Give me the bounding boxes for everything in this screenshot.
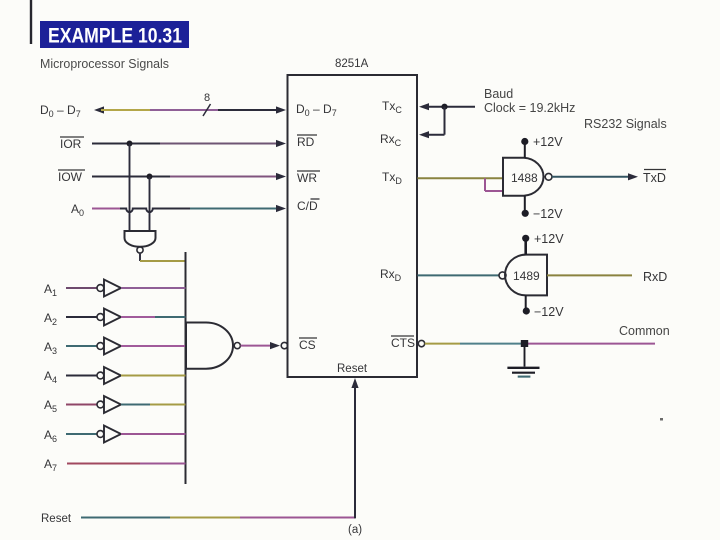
pin label RxD (U1 inside)	[380, 267, 402, 283]
wire A4 inverter to bus	[121, 375, 186, 377]
node baud clock junction	[441, 104, 447, 110]
inverter buffer A2	[66, 309, 121, 326]
ground symbol	[507, 344, 539, 377]
inverter buffer A1	[66, 280, 121, 297]
signal label A7	[44, 457, 57, 473]
signal label A3	[44, 340, 57, 356]
signal label A5	[44, 398, 57, 414]
wire A1 inverter to bus	[121, 287, 186, 289]
label Common	[619, 324, 670, 338]
bus width slash with label 8	[203, 92, 211, 116]
label RS232 Signals	[584, 117, 667, 131]
inverter buffer A5	[66, 396, 121, 413]
pin label TxC (U1 inside)	[382, 99, 402, 115]
address bus vertical line	[185, 252, 187, 484]
svg-text:IOR: IOR	[60, 137, 82, 151]
wire A6 inverter to bus	[121, 433, 186, 435]
svg-text:−12V: −12V	[534, 305, 564, 319]
svg-text:Reset: Reset	[337, 363, 368, 375]
pin label WR (U1 inside)	[297, 171, 320, 185]
svg-text:8: 8	[204, 92, 210, 104]
label Microprocessor Signals	[40, 56, 169, 71]
signal label A2	[44, 311, 57, 327]
wire RxD pin to 1489	[418, 274, 500, 276]
+12V supply of U3	[522, 232, 564, 255]
svg-text:(a): (a)	[348, 524, 362, 536]
NAND gate G2 (chip select decoder)	[186, 323, 240, 369]
pin label CTS (U1 inside)	[391, 336, 415, 350]
svg-text:RD: RD	[297, 135, 315, 149]
wire Reset to chip	[81, 378, 359, 518]
left border line	[30, 0, 32, 44]
inverter buffer A3	[66, 338, 121, 355]
svg-text:Microprocessor Signals: Microprocessor Signals	[40, 56, 169, 71]
svg-text:D0 – D7: D0 – D7	[40, 103, 81, 119]
node IOR junction	[127, 141, 133, 147]
svg-text:IOW: IOW	[58, 170, 83, 184]
svg-text:TxD: TxD	[643, 171, 666, 185]
slide title EXAMPLE 10.31	[40, 21, 189, 48]
signal label A4	[44, 369, 57, 385]
wire D0-D7 bus	[94, 106, 286, 113]
wire A2 inverter to bus	[121, 316, 186, 318]
pin label Reset (U1 inside)	[337, 363, 368, 375]
wire A0 to C/D with hops	[92, 205, 286, 212]
inverter buffer A4	[66, 367, 121, 384]
signal label IOR (left)	[60, 137, 84, 151]
pin label C/D (U1 inside)	[297, 199, 320, 213]
node IOW junction	[147, 174, 153, 180]
svg-text:D0 – D7: D0 – D7	[296, 102, 337, 118]
svg-text:Baud: Baud	[484, 87, 513, 101]
CS input bubble at chip edge	[281, 342, 287, 348]
signal label A0 (left)	[71, 202, 84, 218]
pin label RD (U1 inside)	[297, 135, 317, 149]
svg-text:8251A: 8251A	[335, 58, 369, 70]
wire IOR to RD	[92, 140, 286, 147]
signal label A6	[44, 428, 57, 444]
signal label A1	[44, 282, 57, 298]
IC U1 8251A body	[288, 75, 418, 377]
wire TxD pin to 1488 inputs	[418, 178, 504, 191]
decoder AND gate G1 (points down)	[125, 231, 156, 253]
wire decoder output to address bus	[140, 254, 186, 261]
line driver U2 1488	[503, 158, 552, 196]
pin label CS (U1 inside)	[299, 338, 317, 352]
wire baud clock to TxC	[419, 103, 475, 110]
scan speck	[660, 418, 663, 421]
CTS bubble at chip edge	[418, 340, 424, 346]
svg-text:CS: CS	[299, 338, 316, 352]
label (a)	[348, 524, 362, 536]
svg-text:RxD: RxD	[643, 270, 667, 284]
node ground junction	[521, 340, 528, 347]
+12V supply of U2	[521, 135, 563, 158]
wire 1488 output to TxD	[552, 173, 638, 180]
svg-text:+12V: +12V	[534, 232, 564, 246]
svg-text:+12V: +12V	[533, 135, 563, 149]
label 8251A	[335, 58, 369, 70]
svg-text:C/D: C/D	[297, 199, 318, 213]
wire A7 to bus	[67, 463, 186, 465]
svg-text:1489: 1489	[513, 269, 540, 283]
svg-text:1488: 1488	[511, 171, 538, 185]
wire CTS to Common	[425, 343, 655, 345]
pin label RxC (U1 inside)	[380, 132, 402, 148]
wire RxD line from RS232 side	[547, 274, 632, 276]
wire A3 inverter to bus	[121, 345, 186, 347]
label RxD	[643, 270, 667, 284]
wire baud clock branch to RxC	[419, 107, 445, 139]
svg-text:−12V: −12V	[533, 207, 563, 221]
label Baud Clock	[484, 87, 575, 115]
label TxD output	[643, 170, 666, 186]
signal label IOW (left)	[58, 170, 85, 184]
wire IOW to WR	[92, 173, 286, 180]
line receiver U3 1489	[499, 255, 547, 296]
pin label TxD (U1 inside)	[382, 170, 402, 186]
svg-text:Clock = 19.2kHz: Clock = 19.2kHz	[484, 101, 575, 115]
pin label D0-D7 (U1 inside)	[296, 102, 337, 118]
svg-text:WR: WR	[297, 171, 317, 185]
-12V supply of U3	[523, 295, 565, 319]
svg-text:Common: Common	[619, 324, 670, 338]
wire IOW junction down to decoder gate	[149, 177, 151, 232]
-12V supply of U2	[522, 196, 564, 221]
wire NAND output to CS with arrow	[241, 342, 281, 349]
svg-text:EXAMPLE 10.31: EXAMPLE 10.31	[48, 25, 182, 48]
wire A5 inverter to bus	[121, 404, 186, 406]
wire IOR junction down to decoder gate	[129, 144, 131, 232]
signal label Reset (bottom left)	[41, 513, 72, 525]
svg-text:CTS: CTS	[391, 336, 415, 350]
signal label D0-D7 (left)	[40, 103, 81, 119]
svg-text:RS232 Signals: RS232 Signals	[584, 117, 667, 131]
inverter buffer A6	[66, 426, 121, 443]
svg-text:Reset: Reset	[41, 513, 72, 525]
